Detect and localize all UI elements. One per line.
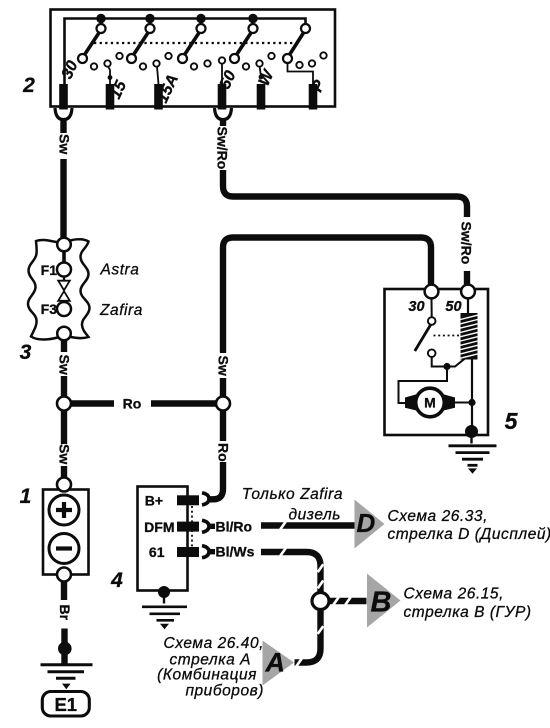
- svg-text:5: 5: [505, 408, 519, 434]
- svg-text:Sw: Sw: [57, 444, 73, 464]
- svg-text:Sw/Ro: Sw/Ro: [215, 127, 231, 170]
- svg-text:стрелка D (Дисплей): стрелка D (Дисплей): [388, 526, 550, 543]
- svg-text:4: 4: [110, 569, 123, 592]
- svg-text:дизель: дизель: [288, 507, 341, 524]
- svg-text:Sw/Ro: Sw/Ro: [459, 222, 475, 265]
- svg-text:2: 2: [22, 74, 35, 97]
- svg-text:Bl/Ro: Bl/Ro: [216, 518, 253, 534]
- svg-text:стрелка В (ГУР): стрелка В (ГУР): [404, 604, 532, 621]
- svg-text:(Комбинация: (Комбинация: [157, 667, 257, 684]
- svg-text:Схема 26.33,: Схема 26.33,: [388, 508, 488, 525]
- svg-text:Br: Br: [57, 605, 73, 621]
- svg-text:B: B: [371, 587, 392, 619]
- svg-text:1: 1: [20, 485, 32, 508]
- svg-text:Sw: Sw: [57, 355, 73, 375]
- svg-text:F3: F3: [41, 301, 58, 317]
- svg-text:B+: B+: [145, 493, 163, 509]
- svg-text:Astra: Astra: [100, 262, 140, 279]
- svg-text:Bl/Ws: Bl/Ws: [216, 544, 255, 560]
- svg-text:M: M: [424, 395, 436, 411]
- svg-text:DFM: DFM: [144, 519, 174, 535]
- svg-text:Ro: Ro: [216, 443, 232, 462]
- svg-text:E1: E1: [54, 694, 77, 715]
- svg-text:Sw: Sw: [216, 356, 232, 376]
- svg-text:61: 61: [149, 544, 165, 560]
- svg-text:Ro: Ro: [123, 396, 142, 412]
- svg-text:Zafira: Zafira: [99, 302, 143, 319]
- svg-text:D: D: [357, 508, 376, 538]
- svg-text:A: A: [265, 648, 286, 678]
- svg-text:30: 30: [408, 299, 424, 315]
- svg-text:Схема 26.15,: Схема 26.15,: [404, 586, 504, 603]
- svg-text:50: 50: [445, 299, 461, 315]
- svg-text:Схема 26.40,: Схема 26.40,: [164, 635, 264, 652]
- svg-text:приборов): приборов): [185, 683, 264, 700]
- svg-text:3: 3: [20, 341, 32, 364]
- svg-text:F1: F1: [41, 262, 58, 278]
- svg-text:Только Zafira: Только Zafira: [242, 486, 343, 503]
- svg-text:Sw: Sw: [57, 134, 73, 154]
